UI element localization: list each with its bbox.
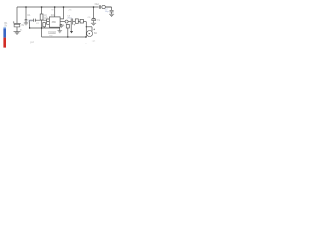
wire speaker drop: [85, 22, 87, 37]
wire top rail: [17, 6, 112, 8]
wire mid row: [30, 27, 60, 29]
node circle out: [65, 20, 68, 23]
capacitor C4 box: [43, 23, 46, 27]
resistor R1: [40, 14, 43, 20]
svg-text:1M: 1M: [44, 18, 47, 20]
wire bottom rail: [42, 36, 87, 38]
node dot 7: [41, 27, 42, 28]
jack inner pin: [89, 33, 90, 34]
legend bar blue: [3, 28, 6, 37]
resistor R5: [80, 19, 83, 23]
capacitor C1 plates: [25, 20, 28, 21]
wire IC out pin: [60, 21, 65, 23]
wire R1 drop: [41, 7, 43, 14]
svg-text:gnd: gnd: [30, 41, 35, 44]
ground C5: [91, 21, 96, 26]
wire battery drop: [16, 7, 18, 24]
wire R5 to corner: [83, 21, 86, 23]
wire IC bottom stub: [59, 27, 61, 30]
label box LM386: [49, 31, 56, 34]
battery plus sign: [13, 21, 15, 23]
svg-text:Out: Out: [95, 2, 99, 6]
legend bar red: [3, 38, 6, 48]
svg-text:amp: amp: [49, 35, 53, 37]
op-amp U1 box: [49, 17, 60, 27]
connector J2 speaker jack: [87, 31, 93, 37]
wire jack feed: [86, 26, 92, 28]
capacitor C7 plates: [110, 10, 114, 12]
wire R4 to R5: [78, 21, 80, 23]
legend bar light cap: [3, 27, 6, 29]
wire input stub down: [30, 20, 31, 28]
ground IC: [58, 31, 63, 33]
svg-text:9V: 9V: [21, 25, 24, 27]
svg-text:386: 386: [52, 21, 57, 24]
node dot 2: [41, 6, 43, 8]
ground arrow: [70, 31, 73, 33]
node dot 1: [25, 6, 27, 8]
node dot 6: [29, 27, 30, 28]
wire input row: [31, 19, 47, 21]
wire bypass arrow drop: [70, 25, 72, 32]
wire C1 gnd stub: [25, 21, 27, 23]
wire circle to C3: [68, 21, 71, 23]
capacitor C5 electrolytic: [92, 18, 96, 20]
wire jack top stub: [91, 27, 93, 31]
ground battery: [14, 32, 21, 34]
wire C1 drop: [25, 7, 27, 19]
node dot 9: [85, 36, 86, 37]
svg-text:IC1: IC1: [51, 14, 55, 17]
node IC left bus: [47, 19, 50, 25]
node dot 5: [93, 6, 95, 8]
wire IC top drop: [54, 7, 56, 17]
svg-text:250µ: 250µ: [67, 18, 73, 20]
capacitor C3 polarity plus: [74, 24, 76, 26]
battery B1 plates: [14, 24, 21, 27]
wire C4 stub: [43, 26, 45, 28]
resistor R3: [66, 24, 69, 28]
node dot 4: [63, 6, 65, 8]
wire battery gnd stub: [16, 27, 18, 32]
ground out: [109, 14, 114, 16]
node dot jack feed: [86, 26, 87, 27]
wire R3 down: [67, 28, 69, 37]
capacitor C3 plates: [71, 19, 73, 25]
wire C3 to R4: [73, 21, 76, 23]
wire Vcc right drop: [60, 7, 63, 19]
node dot 3: [54, 6, 56, 8]
resistor R4: [75, 19, 78, 23]
ground C1: [24, 23, 28, 25]
node dot 8: [67, 36, 68, 37]
capacitor C2 plates: [34, 19, 36, 22]
svg-text:100n: 100n: [28, 20, 34, 22]
connector J1 out jack: [102, 5, 105, 8]
speaker plus: [93, 29, 95, 31]
ground IC pin4: [59, 24, 63, 27]
svg-text:8Ω: 8Ω: [94, 33, 97, 35]
wire out jack right: [105, 7, 111, 14]
wire IC gnd pin: [60, 23, 61, 25]
wire R1 bottom to rail: [41, 20, 43, 37]
wire C5 drop: [93, 7, 95, 18]
capacitor C6 plates: [99, 5, 100, 9]
